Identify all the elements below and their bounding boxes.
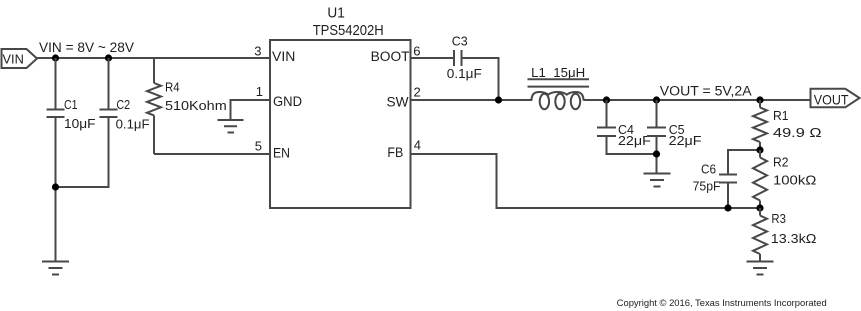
resistor R4 510Kohm [147, 58, 227, 154]
net label VIN = 8V ~ 28V [39, 40, 134, 55]
resistor R3 13.3kOhm [753, 208, 817, 261]
pin 4 FB [387, 138, 421, 160]
junction R1/R2/C6 [756, 146, 763, 153]
ground (input caps) [42, 262, 69, 275]
pin 1 GND [256, 84, 302, 109]
svg-text:EN: EN [273, 146, 290, 161]
port VOUT [811, 89, 860, 108]
svg-text:C2: C2 [116, 97, 130, 112]
capacitor C5 22uF [647, 100, 702, 173]
svg-text:L1 15μH: L1 15μH [531, 65, 585, 80]
junction R2/R3/FB [756, 204, 763, 211]
svg-text:5: 5 [255, 139, 262, 154]
svg-text:VIN: VIN [3, 52, 24, 67]
wire SW rail [411, 99, 811, 101]
svg-text:100kΩ: 100kΩ [773, 173, 817, 188]
junction SW/C3 [495, 96, 502, 103]
pin 6 BOOT [371, 44, 421, 65]
junction C4 top [603, 96, 610, 103]
junction C4/C5 bottom [653, 150, 660, 157]
resistor R1 49.9 Ohm [753, 100, 822, 150]
svg-text:R4: R4 [165, 79, 180, 94]
capacitor C4 22uF [597, 100, 657, 154]
ground (U1 GND pin) [218, 120, 244, 133]
svg-text:C1: C1 [64, 97, 78, 112]
svg-text:6: 6 [413, 44, 420, 59]
junction C1/C2 bottom [52, 183, 59, 190]
svg-text:BOOT: BOOT [371, 49, 410, 64]
resistor R2 100kOhm [753, 150, 817, 208]
pin 2 SW [387, 85, 421, 110]
svg-text:R3: R3 [771, 211, 786, 226]
wire FB net [411, 154, 761, 208]
svg-text:1: 1 [256, 84, 263, 99]
svg-text:VIN: VIN [272, 49, 295, 64]
junction C2/VIN rail [105, 54, 112, 61]
svg-text:22μF: 22μF [669, 133, 702, 148]
svg-text:0.1μF: 0.1μF [447, 66, 482, 81]
ground (R3) [747, 262, 774, 275]
svg-text:GND: GND [273, 94, 302, 109]
svg-text:510Kohm: 510Kohm [165, 98, 227, 113]
svg-text:49.9 Ω: 49.9 Ω [773, 125, 822, 140]
svg-text:VOUT: VOUT [814, 91, 849, 107]
net label VOUT = 5V,2A [660, 83, 752, 98]
svg-text:VIN = 8V ~ 28V: VIN = 8V ~ 28V [39, 40, 134, 55]
svg-text:10μF: 10μF [64, 116, 96, 131]
svg-text:VOUT = 5V,2A: VOUT = 5V,2A [660, 83, 752, 98]
wire BOOT to C3 [411, 57, 454, 59]
svg-text:4: 4 [414, 138, 421, 153]
svg-text:22μF: 22μF [618, 133, 651, 148]
svg-text:Copyright © 2016, Texas Instru: Copyright © 2016, Texas Instruments Inco… [617, 298, 827, 308]
op IC U1 TPS54202H box [270, 5, 411, 209]
svg-text:R1: R1 [773, 108, 789, 123]
junction C1/VIN rail [52, 54, 59, 61]
svg-text:R2: R2 [773, 155, 789, 170]
wire VIN rail [37, 57, 270, 59]
wire C3 to SW node [463, 58, 499, 100]
junction C6 bottom / FB rail [724, 204, 731, 211]
junction C5 top [653, 96, 660, 103]
svg-text:C6: C6 [701, 162, 716, 177]
svg-text:3: 3 [254, 44, 261, 59]
wire U1 GND pin 1 [231, 100, 271, 120]
pin 3 VIN [254, 44, 295, 65]
capacitor C1 10uF [47, 58, 96, 261]
copyright note [617, 298, 827, 308]
inductor L1 15uH [528, 65, 590, 109]
svg-text:SW: SW [387, 94, 409, 109]
svg-text:TPS54202H: TPS54202H [313, 22, 384, 39]
pin 5 EN [255, 139, 290, 161]
port VIN [2, 49, 38, 68]
svg-text:13.3kΩ: 13.3kΩ [771, 231, 817, 246]
capacitor C3 0.1uF [447, 34, 482, 81]
svg-text:C3: C3 [452, 34, 468, 49]
junction R1 top [756, 96, 763, 103]
capacitor C6 75pF [693, 150, 760, 208]
svg-text:0.1μF: 0.1μF [116, 116, 150, 131]
svg-text:FB: FB [387, 145, 403, 160]
svg-text:2: 2 [414, 85, 421, 100]
capacitor C2 0.1uF [56, 58, 150, 187]
svg-text:75pF: 75pF [693, 179, 721, 194]
ground (output caps) [644, 174, 671, 187]
wire EN to U1 pin 5 [154, 153, 270, 155]
svg-text:U1: U1 [327, 5, 344, 22]
